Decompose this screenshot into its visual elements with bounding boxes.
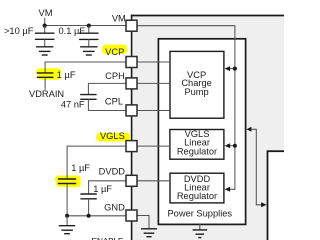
wire C4 to CPL <box>88 99 126 110</box>
chip left border <box>131 15 133 240</box>
svg-text:CPH: CPH <box>105 71 125 81</box>
highlight over VCP label <box>102 45 127 55</box>
ground left main <box>59 226 75 234</box>
svg-text:CPL: CPL <box>105 97 123 107</box>
wire branch to VCP charge pump <box>228 68 235 70</box>
wire VM label stem <box>44 18 46 26</box>
capacitor C2 <box>79 26 98 47</box>
pin CPL <box>126 105 137 116</box>
junction node VM/VCP branch <box>233 67 237 71</box>
ground internal GND pin <box>141 229 157 237</box>
highlight over VGLS label <box>96 133 130 142</box>
wire VCP to C3 <box>45 62 126 73</box>
svg-text:VM: VM <box>39 8 53 18</box>
svg-text:1 µF: 1 µF <box>57 70 76 80</box>
wire VDRAIN feedback <box>251 129 262 205</box>
svg-text:VGLS: VGLS <box>100 131 125 141</box>
block U2 VGLS Linear Regulator <box>170 129 224 159</box>
pin VGLS <box>126 141 137 152</box>
arrow into VCP charge pump <box>225 66 231 71</box>
junction node VM/VGLS branch <box>233 144 237 148</box>
svg-text:0.1 µF: 0.1 µF <box>59 26 86 36</box>
ground under C1 <box>36 47 53 55</box>
wire VM rail <box>45 25 126 27</box>
highlight over capacitor C5 <box>55 176 81 188</box>
wire CPH pin to charge pump <box>137 82 170 84</box>
arrow into power supplies box <box>246 127 251 132</box>
pin GND <box>126 210 137 221</box>
svg-text:>10 µF: >10 µF <box>4 26 34 36</box>
chip top border <box>131 15 284 17</box>
pin CPH <box>126 78 137 89</box>
arrow into DVDD regulator <box>225 187 231 192</box>
wire VM internal <box>137 26 235 190</box>
arrow into gate driver box <box>261 202 267 207</box>
pin VCP <box>126 57 137 68</box>
pin VM <box>126 20 137 31</box>
wire power supplies gnd stem <box>199 224 201 230</box>
svg-text:Regulator: Regulator <box>177 191 217 201</box>
svg-text:VDRAIN: VDRAIN <box>29 89 64 99</box>
power supplies box <box>158 39 245 225</box>
wire VGLS to C5 <box>67 146 126 179</box>
wire DVDD to C6 <box>89 181 126 194</box>
junction node rail/C2 <box>87 24 91 28</box>
wire VCP pin to charge pump <box>137 61 170 63</box>
capacitor C3 1uF <box>37 73 54 90</box>
chip body fill <box>132 16 284 240</box>
capacitor C4 47nF <box>80 95 96 100</box>
svg-text:47 nF: 47 nF <box>61 100 85 110</box>
wire GND pin internal <box>137 216 149 229</box>
svg-text:GND: GND <box>104 203 125 213</box>
wire VGLS pin to regulator <box>137 145 170 147</box>
wire CPH to C4 <box>88 83 126 94</box>
wire DVDD pin to regulator <box>137 180 170 182</box>
svg-text:1 µF: 1 µF <box>93 184 112 194</box>
ground under C2 <box>80 47 97 55</box>
pin DVDD <box>126 175 137 186</box>
svg-text:ENABLE: ENABLE <box>92 236 124 240</box>
svg-text:VCP: VCP <box>105 47 124 57</box>
capacitor C1 <box>35 26 55 47</box>
wire CPL pin to charge pump <box>137 110 170 112</box>
junction node rail/C1 <box>43 24 47 28</box>
svg-text:Power Supplies: Power Supplies <box>167 209 232 219</box>
svg-text:Regulator: Regulator <box>177 146 217 156</box>
junction node C6/gnd rail <box>87 214 91 218</box>
wire branch to VGLS regulator <box>228 145 235 147</box>
gate driver box <box>268 151 298 240</box>
ground power supplies <box>193 230 208 238</box>
junction node C5/gnd rail <box>65 214 69 218</box>
capacitor C6 1uF <box>80 194 96 216</box>
capacitor C5 1uF <box>58 179 76 216</box>
arrow into VGLS regulator <box>225 143 231 148</box>
svg-text:1 µF: 1 µF <box>71 163 90 173</box>
svg-text:DVDD: DVDD <box>99 166 126 176</box>
svg-text:VM: VM <box>112 13 126 23</box>
wire gnd stem <box>66 216 68 226</box>
wire ground rail to GND pin <box>67 215 126 217</box>
highlight over capacitor C3 <box>36 68 61 80</box>
block U1 VCP Charge Pump <box>170 51 224 118</box>
svg-text:Pump: Pump <box>184 87 208 97</box>
block U3 DVDD Linear Regulator <box>170 173 224 203</box>
